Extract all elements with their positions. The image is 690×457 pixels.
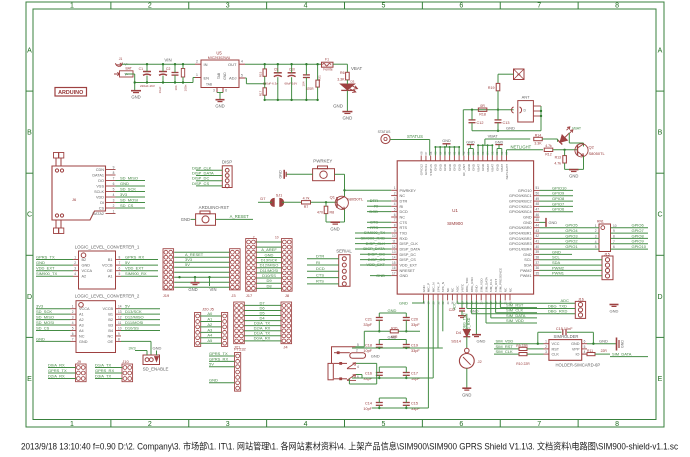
wire C14 C15 tops bracket [379,397,406,399]
svg-text:GND: GND [571,342,580,346]
svg-text:GPIO5/KBR0: GPIO5/KBR0 [509,226,532,230]
svg-text:A_RESET: A_RESET [230,214,250,219]
svg-text:4: 4 [72,321,74,325]
net label GPRS_RX at FT232 [209,360,235,362]
svg-text:SD_CS: SD_CS [120,203,134,208]
svg-text:4: 4 [584,350,586,354]
svg-text:GND: GND [400,274,409,278]
svg-text:GND: GND [506,126,515,131]
svg-text:D10/SS: D10/SS [125,325,139,330]
svg-text:2: 2 [196,60,198,64]
svg-text:7: 7 [613,240,615,244]
svg-text:GND: GND [475,285,479,293]
svg-text:ARDUINO: ARDUINO [58,90,83,96]
svg-text:HOLDER-SIMCARD-6P: HOLDER-SIMCARD-6P [555,363,600,368]
svg-text:PWM2: PWM2 [520,269,531,273]
svg-text:D12/MISO: D12/MISO [125,315,144,320]
svg-text:4: 4 [304,421,308,428]
svg-text:1: 1 [595,224,597,228]
svg-text:R11: R11 [587,349,593,353]
svg-text:SIM_CLK: SIM_CLK [489,278,493,292]
ground GND below U5 [216,99,225,101]
wire VBAT to R14 [484,139,486,145]
svg-text:J8: J8 [285,293,290,298]
svg-text:OE: OE [107,269,113,273]
wire pad to R19 [498,73,514,75]
svg-text:MIC_P: MIC_P [427,283,431,292]
svg-text:1: 1 [545,340,547,344]
svg-text:GND: GND [453,163,457,171]
svg-text:SJ1: SJ1 [276,194,283,198]
svg-text:R20: R20 [391,327,397,331]
svg-text:GPIO3/KBR2: GPIO3/KBR2 [509,237,532,241]
wire reset to A_RESET [216,218,254,220]
wire regulator output rail [245,63,322,65]
capacitor C3 [172,72,179,74]
svg-text:R15: R15 [259,71,263,77]
svg-text:C21: C21 [365,317,372,321]
svg-text:1: 1 [72,305,74,309]
svg-text:RTS: RTS [316,279,324,284]
svg-text:VPP: VPP [572,347,580,351]
net label SIM_VDD to holder [494,343,544,345]
pin header J5 [222,313,228,347]
pin header J21 [234,302,245,344]
frame column ticks top/bottom [110,2,112,9]
svg-text:E: E [658,376,663,383]
svg-text:D3: D3 [351,80,355,84]
svg-text:VBAT: VBAT [572,127,582,131]
svg-text:100uF-6.3v: 100uF-6.3v [263,82,278,86]
svg-text:9: 9 [118,332,120,336]
svg-text:D3/A_TX: D3/A_TX [95,373,112,378]
svg-text:U1: U1 [452,208,458,213]
svg-text:RI: RI [316,260,320,265]
svg-text:R10 22R: R10 22R [516,362,530,366]
wire bottom input rail [125,73,135,75]
svg-text:GND: GND [438,163,442,171]
svg-text:6: 6 [72,332,74,336]
wire Q2 emitter to ground [583,156,585,169]
svg-text:A2: A2 [82,275,87,279]
svg-text:8: 8 [119,255,121,259]
net label D12/MISO at LLC2 pin 12 [121,319,160,321]
svg-text:46: 46 [536,213,540,217]
pin header J19 [163,249,174,290]
svg-text:NC: NC [508,287,512,292]
svg-text:5: 5 [241,73,243,77]
net labels SIM_RST SIM_CLK SIM_DATA SIM_VDD staircase [499,300,501,307]
svg-text:GPRS_TX: GPRS_TX [36,254,55,259]
svg-text:3.3K: 3.3K [534,142,542,146]
svg-text:MIC29302WU: MIC29302WU [208,56,231,60]
LED D5 NETLIGHT [560,135,567,142]
svg-text:4: 4 [113,193,115,197]
svg-text:SD_MISO: SD_MISO [36,315,54,320]
svg-text:TAB: TAB [217,72,221,79]
capacitor C22 on VRTC [461,300,463,308]
svg-text:GND: GND [388,308,397,313]
net label D2/A_RX at J9 [48,378,76,380]
net label 5V at LLC1 pin 7 [116,264,122,266]
svg-text:1: 1 [70,421,74,428]
svg-text:ANT: ANT [522,95,531,100]
svg-text:GND: GND [569,174,578,179]
svg-text:C2: C2 [166,67,170,71]
svg-text:D4: D4 [456,330,462,335]
svg-text:C17: C17 [411,371,418,375]
svg-text:RF_ANT: RF_ANT [462,164,466,176]
svg-text:16: 16 [392,266,396,270]
svg-text:GPIO8: GPIO8 [552,196,565,201]
svg-text:1: 1 [196,73,198,77]
U5 pin 2 IN [195,63,201,65]
svg-text:VCCB: VCCB [102,264,113,268]
svg-text:SD_MOSI: SD_MOSI [36,320,54,325]
SD connector mounting pins bottom [55,220,57,228]
svg-text:SIM_PRESENCE: SIM_PRESENCE [499,268,503,292]
battery connector J1 negative pin [120,71,134,77]
svg-text:GPRS_TX: GPRS_TX [209,351,228,356]
svg-text:GPRS_RX: GPRS_RX [125,254,144,259]
U1 top pins [420,156,422,161]
svg-text:GPIO2: GPIO2 [565,239,578,244]
net label GND at U1 pin 39 [540,253,573,255]
svg-text:9: 9 [394,229,396,233]
svg-text:SIM_DATA: SIM_DATA [484,276,488,292]
net label PWM2 to J15 [540,269,603,271]
svg-text:C12: C12 [477,121,484,125]
svg-text:A1: A1 [79,313,84,317]
svg-text:VDD_EXT: VDD_EXT [125,266,144,271]
svg-text:DISP_DATA: DISP_DATA [400,248,421,252]
svg-text:R18: R18 [479,112,486,116]
svg-text:GPIO4: GPIO4 [565,228,578,233]
svg-text:2: 2 [113,204,115,208]
svg-text:7: 7 [119,261,121,265]
svg-text:33pF: 33pF [411,323,420,327]
pin header J4 [281,302,292,344]
IC logic level converter 2 body [76,301,116,353]
wire DBG_RXD to J16 [471,300,473,313]
svg-text:DISP_CLK: DISP_CLK [400,242,419,246]
svg-text:GND: GND [371,354,380,359]
net label SD_MISO at SD card [116,180,146,182]
pin header J3 [230,249,241,290]
svg-text:DATA1: DATA1 [92,173,104,177]
svg-text:10pF: 10pF [363,349,372,353]
svg-text:GND: GND [343,116,353,121]
svg-text:10: 10 [275,235,279,239]
svg-text:OE: OE [108,340,114,344]
svg-text:6: 6 [113,182,115,186]
svg-text:STATUS: STATUS [429,164,433,176]
svg-text:22R: 22R [601,349,608,353]
svg-text:GPRS_TX: GPRS_TX [48,368,67,373]
svg-text:VBAT: VBAT [486,164,490,172]
U1 top VBAT group pins 53-56 [477,145,479,155]
svg-text:6: 6 [584,340,586,344]
wire ADC to J16 [456,300,458,303]
wire row C16 C17 [352,377,433,379]
svg-text:A3: A3 [207,327,213,332]
svg-text:8: 8 [118,337,120,341]
wire RF_ANT vertical [462,110,464,156]
net label GPRS_TX at LLC1 pin 1 [36,259,73,261]
svg-text:4: 4 [304,3,308,10]
feedback resistor R15 [263,69,266,76]
resistor R21 470R [316,80,319,87]
svg-text:S8050TL: S8050TL [589,151,606,156]
svg-text:3V3: 3V3 [129,345,137,350]
svg-text:5: 5 [357,343,359,347]
svg-text:C9: C9 [274,68,278,72]
svg-text:GPIO12: GPIO12 [420,164,424,175]
net label GND at LLC1 pin 2 [36,264,73,266]
svg-text:IO: IO [575,353,579,357]
svg-text:GND: GND [388,334,397,339]
svg-text:SIM900: SIM900 [447,221,463,226]
svg-text:SERIAL: SERIAL [336,248,352,253]
U1 top GND pair pins 57-58 [468,149,470,156]
svg-text:14: 14 [118,305,122,309]
svg-text:DTR: DTR [316,254,324,259]
resistor R8 470R [324,206,328,213]
svg-text:VIN: VIN [164,58,171,63]
svg-text:DATA2: DATA2 [92,212,104,216]
svg-text:RST: RST [552,347,560,351]
ground GND below Q1 [331,221,341,223]
capacitor C21 33pF [378,313,380,318]
svg-text:SCL: SCL [552,255,561,260]
svg-text:59: 59 [462,151,466,154]
svg-text:SD_CS: SD_CS [36,325,50,330]
ground GND below J2 [462,387,471,389]
svg-text:2: 2 [253,235,255,239]
svg-text:VBAT: VBAT [476,164,480,172]
svg-text:5: 5 [381,421,385,428]
svg-text:GPIO7: GPIO7 [552,201,565,206]
net label 5V at FT232 [209,366,235,368]
svg-text:J10: J10 [122,359,129,364]
wire R12 to Q2 base [553,149,578,151]
svg-text:LOGIC_LEVEL_CONVERTER_2: LOGIC_LEVEL_CONVERTER_2 [75,293,140,298]
svg-text:GND: GND [215,104,224,109]
svg-text:5V: 5V [125,260,130,265]
resistor R19 [496,83,500,90]
net label VIN drop from J19 bus [209,277,211,286]
svg-text:1: 1 [74,255,76,259]
svg-text:CS: CS [99,206,105,210]
svg-text:SIM_VDD: SIM_VDD [480,278,484,293]
svg-text:R7: R7 [304,205,309,209]
svg-text:GPIO10: GPIO10 [552,185,567,190]
svg-text:2: 2 [394,191,396,195]
svg-text:8: 8 [615,421,619,428]
svg-text:SD_SCK: SD_SCK [120,186,136,191]
svg-text:SIM_CLK: SIM_CLK [496,349,513,354]
wire STATUS to U1 [390,139,430,141]
svg-text:2013/9/18 13:10:40 f=0.90 D:: 2013/9/18 13:10:40 f=0.90 D:\2. Company\… [21,441,678,452]
svg-text:GPIO6/KBC4: GPIO6/KBC4 [509,210,532,214]
svg-text:GPIO6: GPIO6 [552,207,565,212]
resistor network RN1 [599,224,611,252]
svg-text:DI: DI [100,201,104,205]
wires between J17 and J8 [256,241,281,243]
svg-text:GND: GND [472,163,476,171]
svg-text:J9: J9 [77,359,82,364]
svg-text:D11/MOSI: D11/MOSI [125,320,143,325]
svg-text:SCLK: SCLK [94,190,104,194]
svg-text:38: 38 [536,256,540,260]
svg-text:GND: GND [552,249,561,254]
wires between J21 and J4 [244,304,281,306]
svg-text:NC: NC [79,334,85,338]
svg-text:GND: GND [599,339,608,344]
net label GPIO5 to RN1 pin 1 [540,227,600,229]
svg-text:DISP_DC: DISP_DC [400,253,417,257]
svg-text:C16: C16 [365,371,372,375]
svg-text:6: 6 [119,267,121,271]
svg-text:SD_ENABLE: SD_ENABLE [143,366,169,371]
svg-text:VCCA: VCCA [79,307,90,311]
status LED indicator circle [381,134,390,143]
svg-text:2: 2 [148,3,152,10]
svg-text:SDA: SDA [524,264,532,268]
svg-text:D1/A_TX: D1/A_TX [95,362,112,367]
svg-text:NC: NC [108,334,114,338]
svg-text:3: 3 [595,235,597,239]
svg-text:SIM_DATA: SIM_DATA [612,351,632,356]
svg-text:3.3K: 3.3K [337,78,345,82]
svg-text:6: 6 [357,375,359,379]
svg-text:5: 5 [381,3,385,10]
svg-text:11: 11 [118,321,122,325]
svg-text:6: 6 [225,89,227,93]
svg-text:45: 45 [536,218,540,222]
pin header J20 [195,313,201,347]
capacitor C17 10pF [403,372,410,374]
svg-text:R12: R12 [545,152,551,156]
net label GPRS_RX at J10 [95,372,122,374]
svg-text:4: 4 [357,365,359,369]
net label SIM900_TX at LLC1 pin 4 [36,275,73,277]
svg-text:SIMHOLDER: SIMHOLDER [554,334,579,339]
svg-text:17: 17 [392,271,396,275]
wires between J20 and J5 with labels A0-A5 [200,315,221,317]
resistor R14 3.3K [534,137,543,140]
svg-text:PWRKEY: PWRKEY [313,159,332,164]
net label D11/MOSI at LLC2 pin 11 [121,324,160,326]
svg-text:J2: J2 [478,359,483,364]
svg-text:GPIO8/KBC2: GPIO8/KBC2 [509,200,532,204]
svg-text:C19: C19 [411,343,418,347]
svg-text:GND: GND [399,301,408,306]
svg-text:GPIO1/KBR4: GPIO1/KBR4 [509,248,532,252]
resistor R18 0R [478,108,487,111]
U1 right pins [534,189,540,191]
svg-text:DTR: DTR [400,200,408,204]
svg-text:IN: IN [204,62,208,67]
resistor R7 4.7k [302,201,311,204]
svg-text:F1: F1 [325,57,329,61]
wire PWRKEY to U1 pin 1 [335,173,345,175]
capacitor C13 [495,119,502,121]
svg-text:Ferrite: Ferrite [323,68,332,72]
svg-text:23: 23 [446,301,450,304]
svg-text:VIN: VIN [210,287,217,292]
svg-text:GPIO7/KBC3: GPIO7/KBC3 [509,205,532,209]
svg-text:6: 6 [613,245,615,249]
svg-text:GND: GND [120,181,129,186]
svg-text:DCD: DCD [400,210,408,214]
svg-text:GPIO1: GPIO1 [565,244,578,249]
svg-text:ARDUINO-RST: ARDUINO-RST [199,205,230,210]
svg-text:220uF-16V: 220uF-16V [140,84,155,88]
svg-text:VCC: VCC [552,342,560,346]
net label GND at SD card [116,185,146,187]
svg-text:4: 4 [394,202,396,206]
svg-text:3V3: 3V3 [120,192,128,197]
ground GND on U1 pin 29 [475,300,477,334]
svg-text:A5: A5 [207,338,213,343]
net label SD_SCK at SD card [116,191,146,193]
svg-text:ADJ: ADJ [229,75,237,80]
svg-text:3: 3 [394,197,396,201]
U1 top GND pair pins 51-52 [496,149,498,156]
svg-text:1: 1 [394,186,396,190]
wire RF line to antenna [463,109,513,111]
svg-text:SCL: SCL [524,258,531,262]
svg-text:D13/SCK: D13/SCK [125,309,142,314]
net label VDD_EXT at LLC1 pin 3 [36,270,73,272]
svg-text:OUT: OUT [228,62,237,67]
U5 pin 1 EN [195,77,201,79]
svg-text:DO: DO [98,179,104,183]
U5 pin 4 OUT [239,63,245,65]
regulator U5 MIC29302 [201,60,239,88]
svg-text:NC: NC [446,287,450,292]
capacitor C19 33pF [405,340,407,345]
svg-text:GPRS_RX: GPRS_RX [209,356,228,361]
svg-text:GND: GND [448,163,452,171]
svg-text:3: 3 [226,3,230,10]
svg-text:J1: J1 [119,57,123,61]
svg-text:44: 44 [536,224,540,228]
svg-text:35: 35 [536,272,540,276]
svg-text:STATUS: STATUS [407,134,423,139]
svg-text:DBG_RXD: DBG_RXD [470,276,474,292]
svg-text:48: 48 [536,202,540,206]
svg-text:GPIO3: GPIO3 [565,233,578,238]
svg-text:GND: GND [333,104,343,109]
svg-text:7: 7 [72,337,74,341]
ground GND at battery input [131,90,141,92]
svg-text:GND: GND [523,216,532,220]
svg-text:SD_MOSI: SD_MOSI [120,197,138,202]
net label GND at LLC2 pin 7 [36,340,71,342]
U1 top GND group bracket pins 61-66 [434,147,436,156]
wire LED to Q2 collector [542,138,557,140]
net label SDA to J15 [540,264,603,266]
net label VDD_EXT at LLC1 pin 6 [116,270,122,272]
svg-text:5V: 5V [125,304,130,309]
svg-text:VBAT: VBAT [351,66,362,71]
svg-text:1: 1 [113,210,115,214]
svg-text:2: 2 [356,349,358,353]
svg-text:SD_SCK: SD_SCK [36,309,52,314]
svg-text:43: 43 [536,229,540,233]
